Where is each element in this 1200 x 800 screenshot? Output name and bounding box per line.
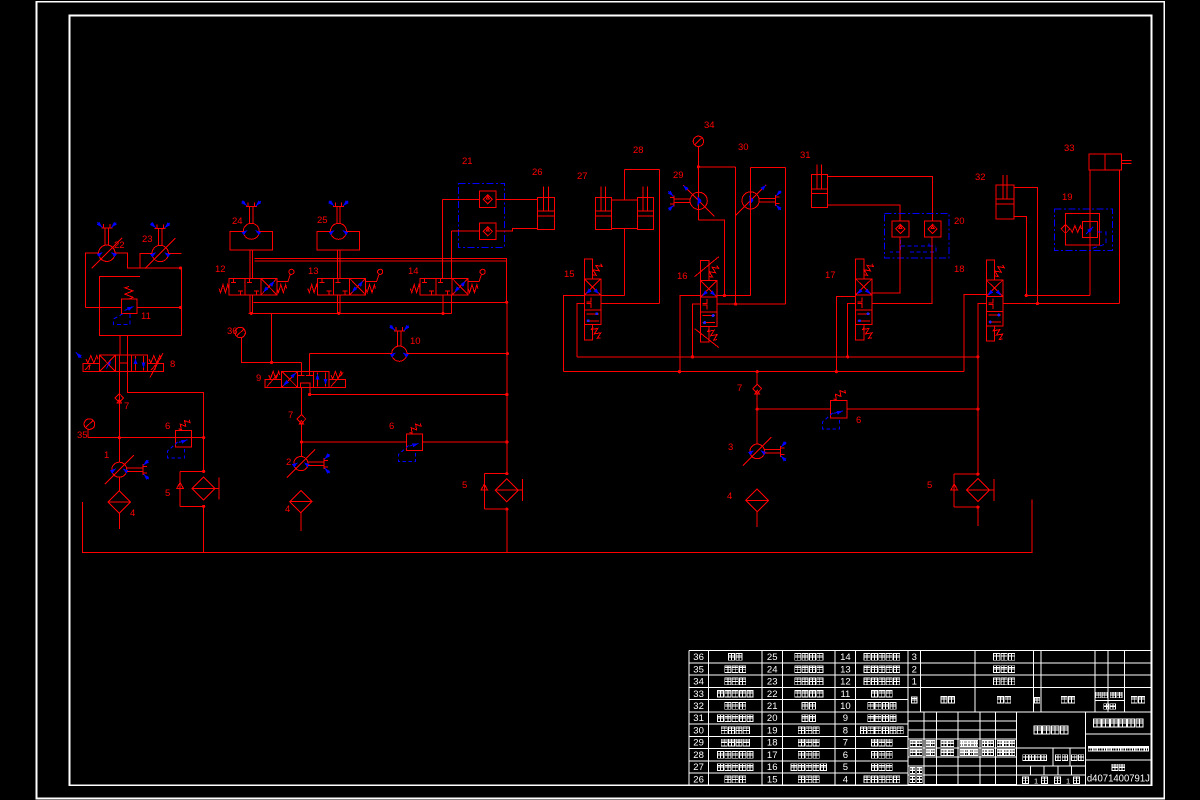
node 7 (group3) check [753, 384, 762, 394]
svg-text:17: 17 [767, 750, 778, 761]
parts list text [693, 652, 850, 786]
wire return bus (manifold) [249, 312, 452, 314]
gauge 36 [235, 327, 245, 337]
valve 8 [100, 355, 148, 372]
counterbalance block 19 [1055, 209, 1113, 251]
pump 25 yoke [317, 231, 360, 250]
wire valve14 ports [443, 199, 452, 313]
signature grid text [910, 740, 922, 746]
svg-text:6: 6 [843, 750, 848, 761]
pump 1 [112, 462, 127, 477]
cylinder 31 [811, 174, 827, 207]
wire supply rail [254, 260, 506, 262]
check valve 21b [480, 223, 496, 239]
wire main vertical group2 [300, 387, 302, 456]
wire valve8 to return filter [128, 372, 204, 472]
svg-text:22: 22 [114, 240, 125, 251]
svg-text:22: 22 [767, 689, 778, 700]
filter 4 (group1) [108, 491, 130, 513]
gauge 35 [84, 419, 95, 430]
svg-text:11: 11 [840, 689, 850, 700]
svg-text:21: 21 [462, 156, 473, 167]
valve 13 [318, 278, 366, 295]
svg-text:8: 8 [170, 359, 175, 370]
wire left block inner loop [100, 277, 182, 336]
wire valve11 line [85, 306, 181, 308]
svg-text:5: 5 [927, 480, 932, 491]
check valve 20b [925, 221, 941, 237]
wire cyl32 ports [1014, 188, 1038, 304]
wire valve15 right ports [601, 296, 660, 304]
wire valve18 B drop [977, 304, 979, 475]
svg-text:1: 1 [1034, 776, 1038, 785]
cylinder 26 [537, 198, 554, 230]
svg-text:16: 16 [677, 271, 688, 282]
wire cyl32 bottom run [1026, 295, 1090, 297]
pump 2 [294, 457, 308, 471]
pump 25 [331, 223, 347, 239]
svg-text:1: 1 [912, 677, 917, 688]
svg-text:3: 3 [912, 652, 917, 663]
svg-text:4: 4 [130, 508, 135, 519]
check valve 20a [892, 221, 909, 237]
valve 18 [986, 260, 994, 280]
wire main vertical group3 [756, 372, 758, 444]
svg-text:14: 14 [408, 266, 419, 277]
svg-text:6: 6 [856, 415, 861, 426]
wire cyl31 ports [828, 176, 933, 221]
return filter 5 (group2) [484, 474, 507, 510]
valve 9 [282, 371, 329, 387]
filter 4 (group2) [290, 490, 312, 512]
check valve 21a [480, 191, 496, 207]
svg-text:36: 36 [693, 652, 704, 663]
svg-text:12: 12 [215, 264, 226, 275]
svg-text:4: 4 [727, 491, 732, 502]
wire left block loop [85, 253, 181, 335]
item rows 1-3 grid [908, 651, 1152, 712]
valve 17 [856, 259, 864, 279]
svg-text:13: 13 [840, 664, 851, 675]
svg-text:6: 6 [165, 421, 170, 432]
svg-text:9: 9 [256, 373, 261, 384]
pilot lines 20 (blue dashed) [890, 240, 936, 252]
svg-text:26: 26 [693, 775, 704, 786]
svg-text:31: 31 [693, 713, 704, 724]
valve 15 [584, 259, 592, 279]
svg-text:35: 35 [693, 664, 704, 675]
svg-text:12: 12 [840, 677, 851, 688]
valve 16 [701, 261, 709, 281]
title block right text [1034, 726, 1068, 734]
wire cyl33 left to block19 [1089, 170, 1091, 296]
title block right cells [1017, 712, 1152, 784]
svg-text:5: 5 [462, 480, 467, 491]
relief valve 6 (group2) [407, 434, 423, 451]
svg-text:23: 23 [142, 234, 153, 245]
relief valve 6 (group1) [176, 430, 192, 447]
valve 12 [229, 278, 277, 295]
svg-text:32: 32 [693, 701, 704, 712]
wire valve15 left ports [563, 296, 584, 372]
wire 21 top line [443, 198, 538, 200]
svg-text:7: 7 [288, 410, 293, 421]
wire 27/28 loop [625, 169, 660, 303]
svg-text:19: 19 [767, 726, 778, 737]
svg-text:27: 27 [577, 171, 588, 182]
wire valve9 bottom ports [301, 387, 506, 415]
svg-text:14: 14 [840, 652, 851, 663]
svg-text:25: 25 [767, 652, 778, 663]
signature grid [908, 712, 1017, 784]
bus P-line lower [563, 371, 964, 373]
svg-text:28: 28 [693, 750, 704, 761]
wire pump29 outlet [699, 220, 725, 296]
svg-text:34: 34 [704, 120, 715, 131]
node 7 (group1) check [115, 394, 124, 404]
svg-text:34: 34 [693, 677, 704, 688]
svg-text:7: 7 [843, 738, 848, 749]
valve 14 [420, 278, 468, 295]
bus T-line upper [577, 356, 978, 358]
pump 24 yoke [230, 231, 273, 250]
svg-text:4: 4 [843, 775, 848, 786]
svg-text:29: 29 [673, 170, 684, 181]
svg-text:2: 2 [912, 664, 917, 675]
cylinder 28 [637, 198, 653, 230]
wire gauge35 line [88, 437, 204, 439]
svg-text:7: 7 [737, 383, 742, 394]
svg-text:9: 9 [843, 713, 848, 724]
svg-text:35: 35 [77, 430, 88, 441]
wire manifold return to valve9 [271, 313, 273, 362]
wire filter5-3 stub [977, 507, 979, 526]
svg-text:13: 13 [308, 266, 319, 277]
svg-text:20: 20 [954, 216, 965, 227]
svg-text:26: 26 [532, 167, 543, 178]
svg-text:27: 27 [693, 762, 704, 773]
svg-text:10: 10 [410, 336, 421, 347]
wire valve17 right ports [871, 237, 932, 303]
svg-text:31: 31 [800, 150, 811, 161]
wire gauge34 tee [698, 147, 735, 305]
wire gauge36 to valve9 [241, 338, 301, 363]
svg-text:4: 4 [285, 504, 290, 515]
wire filter4-3 stub [756, 512, 758, 527]
node 7 (group2) check [297, 415, 306, 425]
svg-text:24: 24 [767, 664, 778, 675]
wire filter5-2 to tank [506, 509, 508, 552]
svg-text:8: 8 [843, 726, 848, 737]
wire pump10 lines [309, 353, 507, 355]
pilot check block 20 [885, 213, 949, 258]
return filter 5 (group1) [180, 471, 204, 506]
svg-text:1: 1 [1066, 776, 1070, 785]
svg-text:33: 33 [1064, 143, 1075, 154]
relief valve 11 [122, 299, 137, 314]
wire valve16 left ports [680, 296, 701, 372]
svg-text:21: 21 [767, 701, 778, 712]
svg-text:2: 2 [286, 457, 291, 468]
wire pump30 loop [751, 167, 786, 304]
pump 23 [152, 245, 168, 261]
wire filter4-1 stub [118, 513, 120, 529]
svg-text:16: 16 [767, 762, 778, 773]
svg-text:7: 7 [124, 401, 129, 412]
wire filter5-1 to tank [203, 506, 205, 552]
svg-text:23: 23 [767, 677, 778, 688]
spindle block between 27/28 [611, 200, 637, 229]
svg-text:19: 19 [1062, 192, 1073, 203]
pump 29 [698, 167, 700, 220]
wire filter4-2 stub [300, 513, 302, 531]
pump 3 [750, 444, 765, 459]
svg-text:29: 29 [693, 738, 704, 749]
svg-text:30: 30 [693, 726, 704, 737]
wire valve17 left ports [836, 297, 855, 372]
wire 21 bottom line [452, 228, 538, 231]
pilot check block 21 [458, 183, 504, 247]
pump 30 [742, 192, 759, 209]
svg-text:3: 3 [728, 442, 733, 453]
manifold enclosure [253, 259, 506, 303]
svg-text:18: 18 [954, 264, 965, 275]
svg-text:32: 32 [975, 172, 986, 183]
wire pump24 to valve12 [250, 250, 253, 313]
svg-text:10: 10 [840, 701, 851, 712]
wire valve9 top ports [301, 354, 309, 372]
wire valve18 right port [1003, 303, 1120, 305]
svg-text:25: 25 [317, 215, 328, 226]
wire manifold drain vertical [506, 302, 508, 473]
wire valve18 left ports [964, 295, 986, 372]
cylinder 27 [595, 198, 611, 230]
svg-text:15: 15 [767, 775, 778, 786]
item rows text [912, 652, 917, 688]
tank [83, 500, 1032, 553]
svg-text:18: 18 [767, 738, 778, 749]
svg-text:24: 24 [232, 216, 243, 227]
svg-text:30: 30 [738, 142, 749, 153]
svg-text:5: 5 [165, 488, 170, 499]
svg-text:5: 5 [843, 762, 848, 773]
wire cyl33 right down [1119, 170, 1121, 304]
pump 24 [243, 223, 259, 239]
component number labels [77, 120, 1075, 519]
wire pump25 to valve13 [338, 250, 341, 313]
wire pressure line group3 [757, 408, 830, 410]
filter 4 (group3) [746, 489, 769, 512]
svg-text:28: 28 [633, 145, 644, 156]
svg-text:15: 15 [564, 269, 575, 280]
wire pressure line group2 [301, 441, 406, 443]
cylinder 32 [996, 185, 1014, 219]
wire valve16 right ports [716, 296, 785, 305]
svg-text:17: 17 [825, 270, 836, 281]
svg-text:11: 11 [141, 311, 151, 322]
svg-text:20: 20 [767, 713, 778, 724]
svg-text:33: 33 [693, 689, 704, 700]
parts list table grid [689, 651, 908, 786]
relief valve 6 (group3) [831, 400, 847, 418]
svg-text:36: 36 [227, 326, 238, 337]
pump 22 [99, 245, 115, 261]
gauge 34 [693, 136, 703, 146]
wire block to valve8 [120, 335, 128, 355]
svg-text:1: 1 [104, 450, 109, 461]
cylinder 33 (horizontal) [1089, 154, 1122, 170]
svg-text:6: 6 [389, 421, 394, 432]
pump 10 [392, 346, 407, 361]
return filter 5 (group3) [954, 474, 978, 507]
svg-text:d4071400791J: d4071400791J [1087, 774, 1150, 785]
wire main vertical group1 [118, 372, 120, 491]
wire 20 to valve17 [900, 237, 932, 303]
